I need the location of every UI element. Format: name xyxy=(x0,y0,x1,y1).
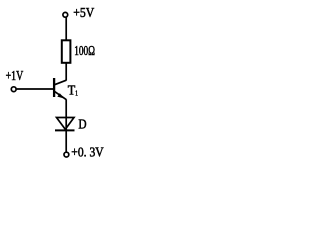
svg-text:D: D xyxy=(78,116,86,131)
resistor R 100ohm xyxy=(62,40,71,63)
wire resistor to collector xyxy=(65,63,67,81)
transistor T1 emitter lead xyxy=(55,92,66,100)
transistor T1 base bar xyxy=(53,78,55,97)
terminal +1V xyxy=(11,87,16,92)
svg-text:+0. 3V: +0. 3V xyxy=(71,145,103,160)
wire emitter to diode xyxy=(65,99,67,117)
svg-text:100Ω: 100Ω xyxy=(74,44,95,59)
transistor T1 emitter arrowhead xyxy=(57,93,64,98)
wire base to input terminal xyxy=(17,88,54,90)
svg-text:+5V: +5V xyxy=(73,6,94,21)
wire through diode xyxy=(65,118,67,153)
diode D triangle xyxy=(57,118,75,130)
wire top rail to resistor xyxy=(65,18,67,40)
terminal +0.3V xyxy=(64,152,69,157)
terminal +5V xyxy=(63,12,68,17)
transistor T1 collector lead xyxy=(54,80,66,85)
svg-text:+1V: +1V xyxy=(6,69,24,84)
svg-text:1: 1 xyxy=(75,88,78,97)
diode D cathode bar xyxy=(55,129,75,131)
svg-text:T: T xyxy=(68,83,76,98)
